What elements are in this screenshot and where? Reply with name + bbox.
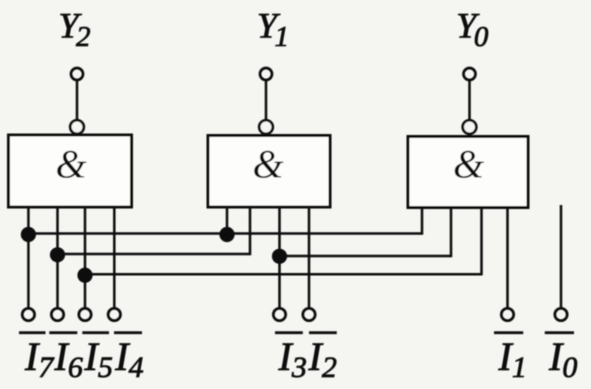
terminal I4 xyxy=(108,308,120,320)
junction I6-U1 xyxy=(50,247,65,262)
wire U3 pin2 stub xyxy=(450,207,453,257)
wire I0 vertical xyxy=(560,205,563,308)
wire U3 pin1 stub xyxy=(421,207,424,235)
inverter bubble U1 output xyxy=(70,120,84,134)
overbar I1 xyxy=(494,331,523,334)
wire net I5 horizontal xyxy=(85,273,482,276)
terminal I1 xyxy=(501,308,513,320)
overbar I6 xyxy=(49,331,77,334)
wire U1 pin3 to I5 terminal xyxy=(84,207,87,308)
wire net I6 horizontal xyxy=(58,253,251,256)
junction I3-U2 xyxy=(272,249,287,264)
overbar I5 xyxy=(82,331,109,334)
terminal I2 xyxy=(303,308,315,320)
wire net I7 horizontal xyxy=(28,232,422,235)
AND gate U1 (Y2) xyxy=(9,135,132,207)
wire Y2 stem xyxy=(76,81,79,120)
overbar I3 xyxy=(275,331,303,334)
junction I7-U1 xyxy=(21,227,36,242)
wire U2 pin2 stub xyxy=(249,207,252,255)
svg-text:&: & xyxy=(453,142,484,187)
wire U3 pin3 stub xyxy=(480,207,483,275)
wire U2 pin3 to I3 terminal xyxy=(278,207,281,308)
wire net I3 horizontal xyxy=(280,255,452,258)
svg-text:&: & xyxy=(252,142,283,187)
overbar I7 xyxy=(19,331,46,334)
overbar I4 xyxy=(114,331,142,334)
wire U1 pin1 to I7 terminal xyxy=(27,207,30,308)
terminal I0 xyxy=(555,308,567,320)
AND gate U3 (Y0) xyxy=(408,137,528,208)
terminal I3 xyxy=(273,308,285,320)
inverter bubble U3 output xyxy=(463,120,477,134)
wire Y0 stem xyxy=(468,81,471,120)
wire U2 pin1 stub xyxy=(226,207,229,234)
wire Y1 stem xyxy=(265,81,268,120)
wire U3 pin4 to I1 terminal xyxy=(506,207,509,308)
inverter bubble U2 output xyxy=(259,120,273,134)
terminal I6 xyxy=(51,308,63,320)
terminal I7 xyxy=(22,308,34,320)
overbar I2 xyxy=(309,331,337,334)
AND gate U2 (Y1) xyxy=(208,136,330,208)
terminal Y1 xyxy=(260,68,272,80)
wire U1 pin4 to I4 terminal xyxy=(113,207,116,308)
svg-text:&: & xyxy=(55,142,86,187)
terminal Y2 xyxy=(71,68,83,80)
wire U2 pin4 to I2 terminal xyxy=(308,207,311,308)
junction I5-U1 xyxy=(77,268,92,283)
terminal Y0 xyxy=(464,68,476,80)
terminal I5 xyxy=(79,308,91,320)
junction I7-U2 xyxy=(219,227,234,242)
wire U1 pin2 to I6 terminal xyxy=(56,207,59,308)
overbar I0 xyxy=(545,331,574,334)
